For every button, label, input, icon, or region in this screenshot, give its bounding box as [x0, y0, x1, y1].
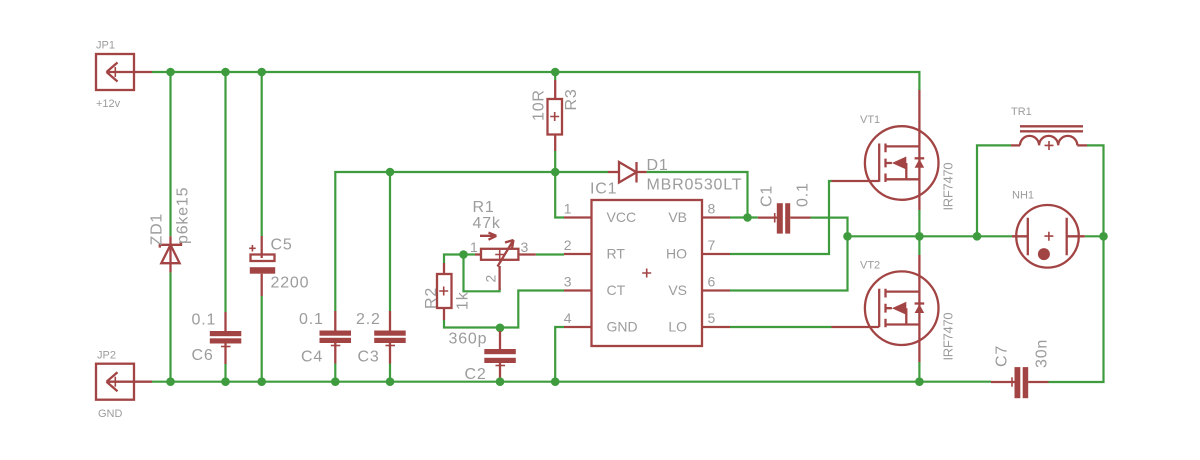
potentiometer R1 — [475, 233, 536, 290]
wire C4 bottom — [334, 364, 336, 382]
wire pot pin1 — [464, 253, 476, 255]
wire pin5 LO to VT2 gate — [730, 326, 832, 328]
resistor R3 — [548, 80, 563, 151]
IC1 box — [592, 200, 703, 346]
svg-text:C5: C5 — [271, 237, 293, 254]
wire C3 riser — [389, 172, 391, 382]
wire D1 to VB — [647, 172, 748, 218]
wire pin4 GND — [555, 327, 564, 382]
wire C2 stubs — [499, 328, 501, 382]
svg-text:R1: R1 — [473, 199, 495, 216]
svg-text:+12v: +12v — [96, 98, 121, 110]
lamp NH1 — [1012, 205, 1085, 268]
resistor R2 — [437, 263, 452, 320]
transistor VT1 — [832, 90, 939, 210]
svg-text:2: 2 — [483, 275, 499, 283]
svg-text:1: 1 — [564, 201, 572, 217]
capacitor C2 — [484, 331, 516, 378]
svg-text:IRF7470: IRF7470 — [941, 163, 956, 211]
wire pot pin3 to RT — [536, 253, 564, 255]
wire VT2 drain/source — [918, 236, 920, 381]
svg-text:7: 7 — [708, 237, 716, 253]
svg-text:0.1: 0.1 — [795, 182, 812, 207]
svg-text:RT: RT — [607, 246, 626, 262]
junction bottom bus — [166, 377, 175, 386]
svg-text:p6ke15: p6ke15 — [175, 187, 192, 244]
svg-text:VCC: VCC — [607, 209, 637, 225]
wire pin7 HO to VT1 gate — [730, 181, 832, 254]
svg-text:GND: GND — [607, 319, 638, 335]
svg-text:C1: C1 — [759, 185, 776, 207]
wire pot wiper tie — [464, 255, 500, 292]
transistor VT2 — [832, 255, 939, 362]
svg-text:0.1: 0.1 — [299, 311, 324, 328]
svg-text:C7: C7 — [994, 345, 1011, 367]
svg-text:4: 4 — [564, 310, 572, 326]
svg-text:1: 1 — [470, 239, 478, 255]
svg-text:2: 2 — [564, 237, 572, 253]
svg-text:VS: VS — [668, 282, 687, 298]
svg-text:47k: 47k — [473, 215, 501, 232]
IC1 right pin stubs — [702, 218, 730, 328]
svg-text:NH1: NH1 — [1012, 190, 1034, 202]
svg-text:3: 3 — [564, 274, 572, 290]
svg-text:3: 3 — [521, 239, 529, 255]
svg-text:TR1: TR1 — [1011, 106, 1032, 118]
svg-text:MBR0530LT: MBR0530LT — [647, 177, 743, 194]
svg-text:IRF7470: IRF7470 — [941, 313, 956, 361]
wire C6 riser — [224, 72, 226, 382]
wire C1 to VS node — [811, 218, 848, 237]
svg-text:8: 8 — [708, 201, 716, 217]
svg-text:GND: GND — [98, 408, 123, 420]
svg-text:IC1: IC1 — [590, 181, 617, 198]
junction pot node — [459, 250, 468, 259]
svg-text:ZD1: ZD1 — [149, 213, 166, 246]
svg-text:C4: C4 — [301, 349, 323, 366]
svg-text:D1: D1 — [647, 157, 669, 174]
wire R2 bottom to CT — [444, 291, 564, 328]
capacitor C6 — [210, 312, 242, 364]
wire VT1 source down — [918, 210, 920, 236]
wire C5 riser — [261, 72, 263, 382]
zener ZD1 — [160, 236, 181, 272]
svg-text:JP1: JP1 — [96, 40, 115, 52]
svg-text:5: 5 — [708, 310, 716, 326]
junction VB node — [743, 213, 752, 222]
wire TR1 left — [977, 145, 1011, 236]
svg-text:CT: CT — [607, 282, 626, 298]
svg-text:10R: 10R — [531, 89, 548, 121]
connector JP1 — [96, 54, 152, 90]
capacitor C1 — [758, 203, 811, 233]
wire ZD1 riser — [169, 72, 171, 382]
svg-text:HO: HO — [666, 246, 687, 262]
svg-text:JP2: JP2 — [97, 350, 116, 362]
svg-text:6: 6 — [708, 274, 716, 290]
capacitor C5 (polarized) — [249, 236, 275, 296]
junction VCC line — [386, 168, 395, 177]
svg-text:VT2: VT2 — [860, 260, 880, 272]
svg-text:VB: VB — [668, 209, 687, 225]
wire pin8 to C1 — [730, 216, 758, 218]
svg-text:1k: 1k — [455, 291, 472, 310]
IC1 left pin stubs — [564, 218, 592, 328]
junction top bus — [166, 68, 175, 77]
svg-text:R2: R2 — [423, 287, 440, 309]
wire pin6 VS — [730, 236, 848, 290]
wire VCC line — [335, 172, 608, 311]
svg-text:R3: R3 — [563, 88, 580, 110]
svg-text:0.1: 0.1 — [192, 312, 217, 329]
diode D1 — [608, 162, 647, 183]
transformer TR1 — [1011, 126, 1087, 150]
wire R3 stubs — [554, 72, 556, 172]
svg-text:2.2: 2.2 — [356, 311, 381, 328]
svg-text:2200: 2200 — [271, 275, 310, 292]
wire VCC to pin1 — [555, 172, 564, 218]
svg-text:C3: C3 — [358, 349, 380, 366]
svg-text:C2: C2 — [465, 366, 487, 383]
connector JP2 — [96, 364, 152, 400]
svg-text:30n: 30n — [1034, 339, 1051, 368]
wire R2 top — [444, 255, 464, 264]
wire bottom GND bus — [152, 381, 991, 383]
wire top +12v bus — [152, 72, 919, 90]
svg-text:LO: LO — [668, 319, 687, 335]
capacitor C3 — [374, 311, 406, 364]
svg-text:VT1: VT1 — [860, 114, 880, 126]
svg-text:C6: C6 — [192, 347, 214, 364]
junction CT node — [496, 324, 505, 333]
junction VS node — [843, 232, 852, 241]
wire midpoint row — [848, 235, 1104, 237]
capacitor C7 — [991, 367, 1049, 398]
capacitor C4 — [320, 311, 352, 364]
svg-text:360p: 360p — [449, 331, 488, 348]
wire TR1 right riser — [1049, 145, 1104, 382]
